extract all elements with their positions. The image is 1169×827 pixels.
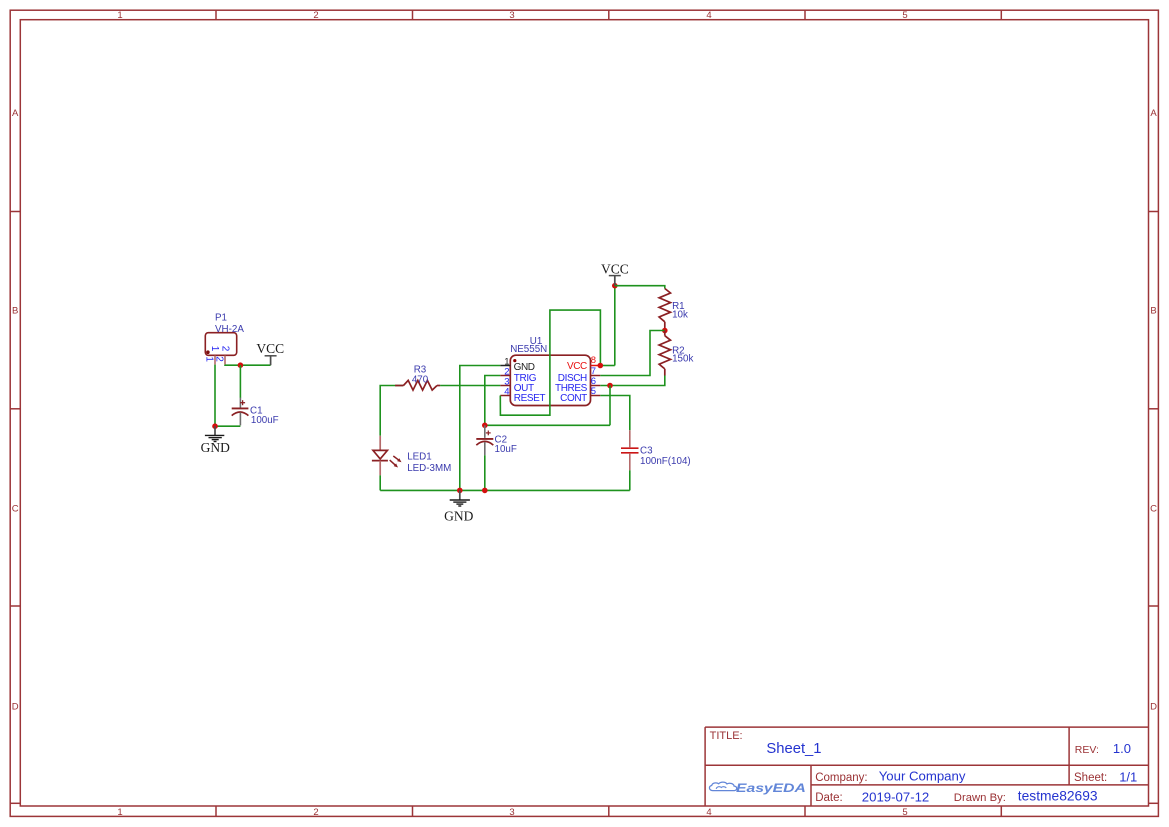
junction GND rail: [457, 488, 463, 494]
svg-text:GND: GND: [444, 508, 473, 523]
TITLEBLOCK: [705, 727, 1148, 806]
svg-text:5: 5: [591, 386, 596, 397]
wire R3 to LED: [380, 386, 403, 436]
svg-text:2: 2: [313, 10, 318, 21]
svg-text:150k: 150k: [672, 354, 693, 365]
svg-text:REV:: REV:: [1075, 744, 1099, 756]
svg-text:LED-3MM: LED-3MM: [407, 463, 451, 474]
U1 pin 1 (GND): [500, 365, 510, 367]
wire to C1 top: [239, 365, 241, 398]
svg-text:C: C: [12, 504, 19, 515]
svg-text:VCC: VCC: [256, 341, 284, 356]
svg-text:C: C: [1150, 504, 1157, 515]
svg-text:LED1: LED1: [407, 452, 432, 463]
svg-text:Sheet_1: Sheet_1: [766, 741, 821, 757]
svg-text:470: 470: [412, 375, 429, 386]
U1 pin numbers: [504, 356, 509, 397]
junction R1/R2: [662, 328, 668, 334]
U1 pin 5 (CONT): [591, 395, 601, 397]
wire VCC vertical: [614, 286, 616, 366]
LOGO: [709, 782, 805, 795]
svg-text:1/1: 1/1: [1119, 769, 1137, 784]
U1 pin 6 (THRES): [591, 385, 601, 387]
svg-text:4: 4: [706, 807, 711, 818]
junction P1/C1/VCC: [238, 362, 244, 368]
svg-text:1: 1: [117, 10, 122, 21]
svg-text:A: A: [1150, 108, 1157, 119]
resistor R1: [659, 289, 670, 331]
U1 pin 4 (RESET): [500, 395, 510, 397]
wire RESET loop to pin8: [500, 310, 600, 415]
U1 pin 7 (DISCH): [591, 375, 601, 377]
svg-text:3: 3: [509, 807, 514, 818]
wire VCC to R1: [615, 286, 665, 289]
U1 pin 3 (OUT): [500, 385, 510, 387]
wire C2 bottom: [484, 455, 486, 490]
svg-text:P1: P1: [215, 312, 227, 323]
wire junction to pin7 DISCH: [600, 331, 665, 376]
connector P1: [205, 333, 236, 365]
svg-text:GND: GND: [514, 362, 535, 373]
svg-text:VH-2A: VH-2A: [215, 324, 244, 335]
ground flag GND (P1): [201, 426, 230, 455]
op-amp/timer U1 NE555N body: [510, 355, 590, 405]
svg-text:Date:: Date:: [815, 792, 843, 804]
svg-text:testme82693: testme82693: [1018, 789, 1098, 804]
svg-text:2019-07-12: 2019-07-12: [862, 789, 929, 804]
svg-text:Company:: Company:: [815, 772, 867, 784]
capacitor C1: [232, 398, 249, 426]
wire C1 bottom to GND: [215, 425, 240, 427]
wire pin5 CONT to C3: [600, 396, 630, 431]
svg-text:B: B: [1150, 306, 1156, 317]
wire P1 pin2 to VCC: [225, 364, 271, 367]
svg-text:Sheet:: Sheet:: [1074, 772, 1107, 784]
power flag VCC (555): [601, 261, 629, 285]
svg-text:B: B: [12, 306, 18, 317]
svg-text:4: 4: [504, 386, 509, 397]
wire pin8 to VCC: [600, 365, 615, 367]
wire C3 bottom: [629, 470, 631, 490]
svg-text:NE555N: NE555N: [510, 344, 547, 355]
svg-text:1: 1: [204, 356, 215, 362]
junction THRES: [607, 383, 613, 389]
svg-text:1: 1: [117, 807, 122, 818]
resistor R3: [395, 380, 440, 390]
svg-text:R3: R3: [414, 364, 427, 375]
svg-text:A: A: [12, 108, 19, 119]
svg-text:2: 2: [214, 356, 225, 362]
wire R2 to pin6 THRES: [600, 376, 665, 386]
svg-text:D: D: [12, 702, 19, 713]
wire pin1 to GND net: [460, 366, 501, 491]
svg-text:EasyEDA: EasyEDA: [736, 783, 806, 795]
svg-text:GND: GND: [201, 440, 230, 455]
capacitor C3: [621, 430, 639, 470]
wire THRES down: [609, 386, 611, 426]
ground flag GND (555): [444, 490, 473, 523]
junction GND P1: [212, 423, 218, 429]
svg-text:VCC: VCC: [601, 261, 629, 276]
svg-text:TITLE:: TITLE:: [710, 730, 743, 742]
junction pin8: [598, 363, 604, 369]
svg-text:100nF(104): 100nF(104): [640, 456, 691, 467]
wire pin2 TRIG down: [485, 376, 501, 426]
svg-text:10uF: 10uF: [495, 444, 517, 455]
svg-text:Drawn By:: Drawn By:: [954, 792, 1006, 804]
svg-text:2: 2: [219, 346, 230, 352]
svg-text:3: 3: [509, 10, 514, 21]
power flag VCC (P1): [256, 341, 284, 365]
svg-text:CONT: CONT: [560, 393, 587, 404]
LED LED1: [372, 436, 402, 476]
svg-text:2: 2: [313, 807, 318, 818]
U1 pin 8 (VCC): [591, 365, 601, 367]
wire LED bottom: [379, 475, 381, 490]
svg-text:D: D: [1150, 702, 1157, 713]
junction VCC: [612, 283, 618, 289]
svg-text:1: 1: [209, 346, 220, 352]
svg-text:5: 5: [902, 10, 907, 21]
wire bottom GND rail: [380, 489, 630, 491]
U1 pin 2 (TRIG): [500, 375, 510, 377]
U1 pin names: [514, 362, 546, 404]
svg-text:RESET: RESET: [514, 393, 546, 404]
svg-text:1.0: 1.0: [1113, 741, 1131, 756]
svg-text:10k: 10k: [672, 309, 688, 320]
wire pin3 OUT to R3: [440, 385, 500, 387]
svg-text:VCC: VCC: [567, 361, 587, 372]
junction C2 top: [482, 423, 488, 429]
svg-text:100uF: 100uF: [251, 415, 279, 426]
svg-text:4: 4: [706, 10, 711, 21]
svg-text:5: 5: [902, 807, 907, 818]
capacitor C2: [476, 425, 493, 455]
wire to C2: [485, 424, 610, 426]
svg-text:Your Company: Your Company: [879, 769, 966, 784]
wire P1 pin1 to GND: [214, 365, 216, 427]
svg-text:8: 8: [591, 355, 596, 366]
junction C2 bottom: [482, 488, 488, 494]
resistor R2: [659, 331, 670, 376]
